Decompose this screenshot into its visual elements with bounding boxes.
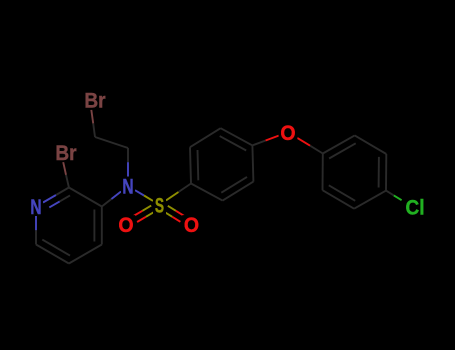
svg-text:O: O bbox=[118, 213, 133, 237]
svg-text:N: N bbox=[122, 175, 133, 199]
svg-text:Cl: Cl bbox=[406, 196, 425, 220]
svg-text:Br: Br bbox=[55, 141, 77, 165]
svg-text:Br: Br bbox=[84, 89, 106, 113]
svg-text:S: S bbox=[155, 194, 164, 218]
svg-text:O: O bbox=[184, 213, 199, 237]
svg-text:N: N bbox=[30, 195, 41, 219]
svg-text:O: O bbox=[280, 121, 295, 145]
